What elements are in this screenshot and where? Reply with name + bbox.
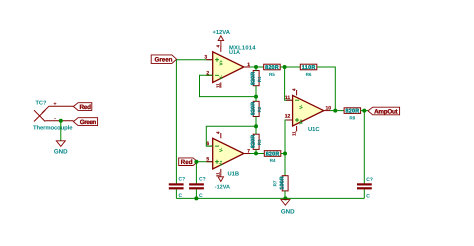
op-amp U1A V+ power stub pin 4	[220, 47, 222, 52]
wire node A to R1	[255, 67, 257, 71]
svg-text:820R: 820R	[265, 65, 279, 71]
junction node D (U1B output)	[254, 151, 258, 155]
label Green (amplifier input)	[151, 55, 176, 64]
resistor R2	[251, 101, 262, 116]
wire U1B pin 6 feedback loop	[206, 126, 256, 146]
svg-text:5: 5	[206, 157, 209, 163]
wire R7 to ground node	[284, 191, 286, 199]
capacitor C1	[169, 177, 185, 199]
wire R1 to node B	[255, 86, 257, 97]
wire U1B output to node D	[250, 153, 264, 155]
op-amp U1A body	[213, 52, 244, 83]
svg-text:4: 4	[216, 45, 221, 48]
junction node B (U1A feedback)	[254, 95, 258, 99]
op-amp U1B V- power stub pin 11	[220, 169, 222, 173]
wire node B to R2	[255, 97, 257, 102]
wire ground rail	[176, 197, 364, 199]
wire node H down to capacitor C3	[363, 111, 365, 184]
junction node A (U1A output)	[254, 65, 258, 69]
svg-text:GND: GND	[54, 148, 68, 155]
op-amp U1A pin 2 stub	[206, 74, 212, 76]
svg-text:11: 11	[285, 95, 291, 101]
op-amp U1A - input marker	[215, 74, 219, 76]
svg-text:R4: R4	[270, 158, 276, 163]
power symbol -12VA	[215, 173, 230, 191]
junction ground node	[283, 196, 287, 200]
svg-text:820R: 820R	[346, 108, 360, 114]
op-amp U1A pin 1 stub	[244, 66, 250, 68]
svg-text:GND: GND	[281, 209, 295, 216]
op-amp U1C + input marker	[295, 118, 299, 122]
svg-text:820R: 820R	[251, 72, 257, 85]
svg-text:TC?: TC?	[36, 100, 47, 106]
svg-text:C?: C?	[366, 177, 373, 183]
resistor R6	[300, 64, 317, 77]
svg-text:V+: V+	[298, 118, 303, 124]
svg-text:100R: 100R	[280, 176, 286, 189]
op-amp U1B - input marker	[215, 145, 219, 147]
svg-text:4: 4	[216, 131, 221, 134]
op-amp U1A pin 3 stub	[206, 59, 212, 61]
junction node E (R5/R6)	[283, 65, 287, 69]
svg-text:AmpOut: AmpOut	[374, 108, 398, 115]
op-amp U1C pin 10 stub	[324, 110, 330, 112]
wire Green node down to capacitor C1	[175, 60, 177, 184]
op-amp U1C body	[293, 95, 324, 126]
resistor R3	[251, 134, 262, 149]
svg-text:U1A: U1A	[229, 50, 240, 56]
wire node F down to R7	[284, 154, 286, 176]
svg-text:-12VA: -12VA	[215, 184, 230, 190]
wire R2 to node C	[255, 117, 257, 127]
wire R3 to node D	[255, 149, 257, 153]
svg-text:C: C	[366, 193, 370, 199]
svg-text:R6: R6	[306, 72, 312, 77]
svg-text:110R: 110R	[302, 65, 316, 71]
op-amp U1B V+ power stub pin 4	[220, 133, 222, 138]
capacitor C2	[189, 177, 206, 199]
wire thermocouple to ground	[60, 121, 62, 141]
svg-text:820R: 820R	[251, 135, 257, 148]
resistor R1	[251, 71, 262, 86]
op-amp U1C pin 11 stub	[286, 99, 292, 101]
op-amp U1B pin 7 stub	[244, 153, 250, 155]
svg-text:R7: R7	[272, 180, 277, 186]
wire C1 bottom to rail	[175, 189, 177, 198]
junction node C (U1B feedback)	[254, 124, 258, 128]
svg-text:U1C: U1C	[308, 126, 320, 133]
junction on thermocouple negative lead	[59, 119, 63, 123]
op-amp U1B + input marker	[215, 160, 219, 164]
svg-text:1: 1	[247, 62, 250, 68]
svg-text:C?: C?	[199, 177, 206, 183]
svg-text:R5: R5	[269, 72, 275, 77]
op-amp U1C V+ power stub pin 4	[296, 90, 298, 95]
junction node H (output tap)	[362, 109, 366, 113]
wire U1C output to node G and node H	[330, 110, 344, 112]
wire C2 bottom to rail	[195, 189, 197, 198]
svg-text:R1: R1	[257, 76, 262, 82]
svg-text:820R: 820R	[266, 151, 280, 157]
svg-text:R8: R8	[349, 115, 355, 120]
wire R6 to feedback corner	[317, 67, 336, 111]
ground GND (amplifier)	[281, 200, 295, 216]
power symbol +12VA	[212, 29, 230, 47]
capacitor C3	[357, 177, 373, 199]
svg-text:R3: R3	[257, 139, 262, 145]
svg-text:Red: Red	[79, 104, 91, 111]
resistor R4	[264, 151, 281, 163]
thermocouple TC1 symbol	[34, 106, 73, 121]
wire Green label to U1A pin 3	[177, 59, 213, 61]
svg-text:11: 11	[216, 83, 221, 88]
svg-text:12: 12	[285, 114, 291, 120]
wire node E down to U1C pin 11	[285, 67, 293, 100]
svg-text:3: 3	[204, 55, 207, 61]
ground GND (thermocouple)	[54, 141, 68, 156]
resistor R7	[272, 176, 288, 191]
wire node C to R3	[255, 126, 257, 134]
svg-text:820R: 820R	[251, 102, 257, 115]
svg-text:V+: V+	[219, 59, 224, 65]
op-amp U1A V- power stub pin 11	[220, 82, 222, 87]
wire Red label to U1B pin 5	[198, 161, 213, 163]
junction capacitor C2 tap on Red wire	[194, 160, 198, 164]
label Red (thermocouple +)	[73, 103, 91, 111]
svg-text:U1B: U1B	[228, 171, 240, 177]
svg-text:V-: V-	[219, 147, 224, 152]
label Red (U1B input)	[179, 158, 198, 166]
svg-text:-: -	[54, 116, 56, 122]
wire node F up to U1C pin 12	[285, 120, 293, 154]
svg-text:V-: V-	[219, 75, 224, 80]
op-amp U1B pin 5 stub	[206, 161, 212, 163]
op-amp U1B body	[213, 138, 244, 169]
junction C2 on ground rail	[194, 196, 198, 200]
svg-text:Red: Red	[181, 159, 193, 166]
junction node F	[283, 152, 287, 156]
svg-text:+: +	[53, 101, 56, 107]
wire C2 top to Red wire	[195, 162, 197, 184]
wire R5 to node E	[280, 66, 300, 68]
svg-text:4: 4	[291, 88, 296, 91]
wire C3 bottom to rail	[363, 189, 365, 198]
svg-text:Green: Green	[155, 57, 173, 64]
wire R8 to AmpOut label	[361, 110, 368, 112]
resistor R8	[344, 108, 361, 121]
svg-text:11: 11	[291, 131, 296, 136]
svg-text:+12VA: +12VA	[212, 29, 230, 36]
svg-text:C?: C?	[179, 177, 186, 183]
svg-text:7: 7	[247, 149, 250, 155]
svg-text:Green: Green	[80, 119, 97, 126]
svg-text:Thermocouple: Thermocouple	[33, 124, 73, 131]
op-amp U1A + input marker	[215, 58, 219, 62]
op-amp U1C pin 12 stub	[286, 119, 292, 121]
op-amp U1B pin 6 stub	[206, 145, 212, 147]
svg-text:V-: V-	[298, 104, 303, 109]
wire U1A output to node A	[250, 66, 264, 68]
label Green (thermocouple -)	[73, 118, 97, 126]
wire U1A pin 2 feedback loop	[200, 75, 257, 96]
svg-text:V+: V+	[219, 160, 224, 166]
wire R4 to node F	[281, 153, 285, 155]
junction node G (feedback tap)	[333, 109, 337, 113]
op-amp U1C - input marker	[295, 99, 299, 101]
op-amp U1C V- power stub pin 11	[296, 126, 298, 131]
svg-text:R2: R2	[257, 106, 262, 112]
svg-text:11: 11	[216, 172, 221, 177]
label AmpOut	[368, 107, 400, 115]
resistor R5	[264, 64, 281, 77]
